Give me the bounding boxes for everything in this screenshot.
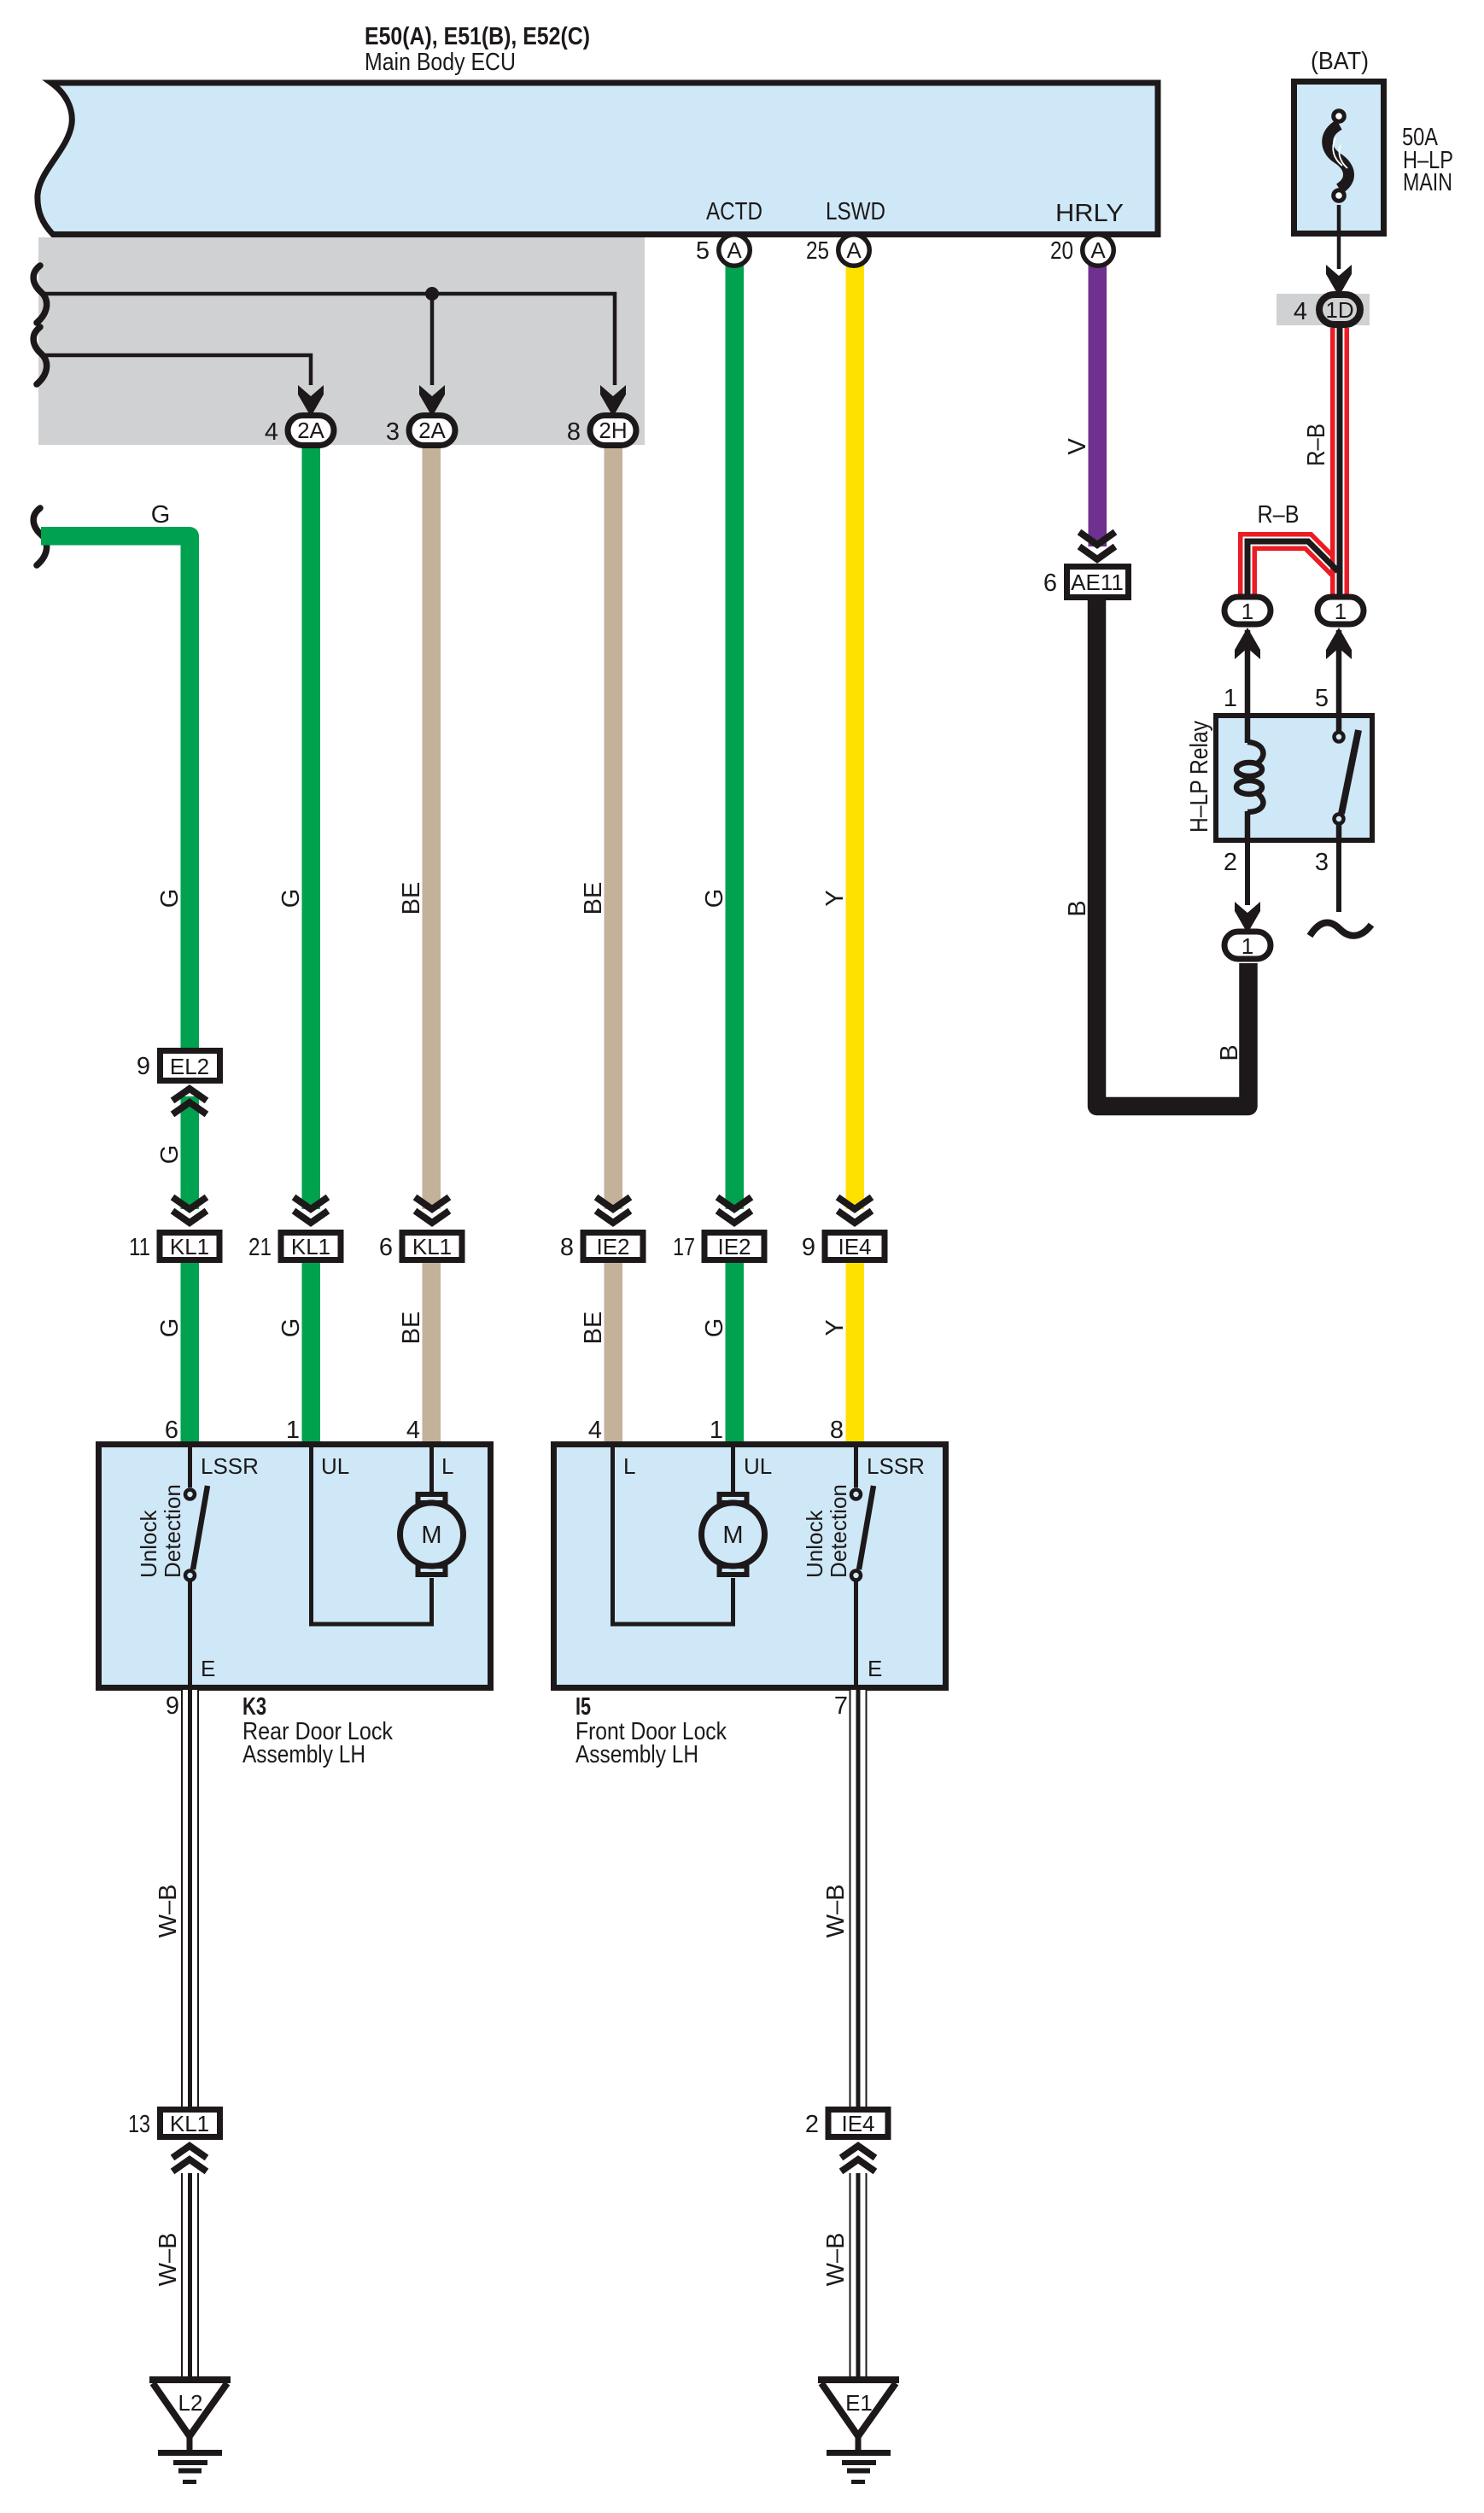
- svg-text:L: L: [623, 1453, 635, 1479]
- svg-text:9: 9: [166, 1692, 179, 1720]
- svg-text:M: M: [421, 1522, 441, 1549]
- svg-text:3: 3: [1315, 849, 1329, 876]
- svg-text:Main Body ECU: Main Body ECU: [365, 49, 516, 76]
- svg-text:G: G: [278, 1318, 305, 1338]
- svg-text:A: A: [727, 237, 742, 263]
- svg-text:5: 5: [696, 237, 710, 265]
- svg-text:R–B: R–B: [1303, 424, 1330, 466]
- svg-text:G: G: [156, 889, 184, 909]
- svg-text:M: M: [722, 1522, 743, 1549]
- svg-text:25: 25: [806, 237, 829, 265]
- svg-text:W–B: W–B: [822, 2233, 850, 2287]
- svg-text:AE11: AE11: [1071, 570, 1124, 595]
- svg-text:B: B: [1216, 1044, 1243, 1061]
- svg-text:9: 9: [802, 1234, 815, 1261]
- svg-text:H–LP Relay: H–LP Relay: [1186, 721, 1213, 833]
- svg-text:ACTD: ACTD: [706, 198, 762, 225]
- svg-text:2H: 2H: [599, 418, 627, 443]
- svg-text:2: 2: [805, 2111, 819, 2138]
- svg-text:W–B: W–B: [822, 1885, 850, 1938]
- svg-text:KL1: KL1: [291, 1234, 330, 1259]
- svg-text:V: V: [1064, 438, 1091, 455]
- svg-text:5: 5: [1315, 685, 1329, 712]
- svg-text:LSWD: LSWD: [826, 198, 885, 225]
- svg-text:E: E: [201, 1656, 215, 1681]
- svg-text:20: 20: [1050, 237, 1073, 265]
- svg-text:BE: BE: [398, 882, 425, 915]
- svg-text:G: G: [278, 889, 305, 909]
- svg-text:KL1: KL1: [412, 1234, 452, 1259]
- svg-text:6: 6: [379, 1234, 393, 1261]
- svg-text:E: E: [868, 1656, 882, 1681]
- svg-text:G: G: [156, 1318, 184, 1338]
- svg-text:IE2: IE2: [596, 1234, 629, 1259]
- svg-text:B: B: [1064, 900, 1091, 916]
- svg-text:1: 1: [1224, 685, 1237, 712]
- svg-text:G: G: [701, 1318, 728, 1338]
- svg-text:LSSR: LSSR: [867, 1453, 925, 1479]
- svg-text:9: 9: [137, 1053, 150, 1080]
- svg-text:KL1: KL1: [170, 1234, 209, 1259]
- svg-text:G: G: [701, 889, 728, 909]
- svg-text:Unlock: Unlock: [136, 1510, 161, 1578]
- svg-text:4: 4: [265, 418, 278, 446]
- svg-text:A: A: [1090, 237, 1106, 263]
- svg-text:IE2: IE2: [717, 1234, 751, 1259]
- svg-text:8: 8: [830, 1417, 844, 1444]
- svg-text:1: 1: [1335, 599, 1347, 624]
- svg-text:E1: E1: [845, 2390, 873, 2416]
- svg-text:I5: I5: [575, 1693, 591, 1721]
- svg-text:1: 1: [1242, 933, 1253, 959]
- svg-text:17: 17: [673, 1234, 695, 1261]
- svg-text:21: 21: [248, 1234, 272, 1261]
- svg-text:13: 13: [128, 2111, 150, 2138]
- svg-text:1: 1: [710, 1417, 723, 1444]
- svg-text:R–B: R–B: [1258, 501, 1300, 529]
- svg-text:G: G: [156, 1145, 184, 1165]
- svg-text:LSSR: LSSR: [201, 1453, 259, 1479]
- svg-text:1: 1: [286, 1417, 300, 1444]
- svg-text:Detection: Detection: [826, 1484, 851, 1578]
- svg-text:Unlock: Unlock: [802, 1510, 827, 1578]
- svg-text:Assembly LH: Assembly LH: [242, 1741, 365, 1768]
- svg-text:(BAT): (BAT): [1311, 48, 1369, 75]
- svg-text:Detection: Detection: [160, 1484, 185, 1578]
- svg-text:W–B: W–B: [155, 1885, 182, 1938]
- svg-text:8: 8: [560, 1234, 574, 1261]
- svg-text:IE4: IE4: [838, 1234, 871, 1259]
- svg-text:EL2: EL2: [170, 1054, 209, 1079]
- svg-text:IE4: IE4: [841, 2111, 874, 2136]
- svg-text:4: 4: [588, 1417, 602, 1444]
- svg-text:6: 6: [165, 1417, 178, 1444]
- svg-text:1D: 1D: [1325, 297, 1353, 323]
- svg-text:Y: Y: [821, 890, 849, 906]
- svg-text:6: 6: [1043, 570, 1057, 597]
- svg-text:7: 7: [834, 1692, 848, 1720]
- svg-text:2A: 2A: [297, 418, 324, 443]
- svg-text:1: 1: [1242, 599, 1253, 624]
- svg-text:8: 8: [567, 418, 581, 446]
- svg-text:L: L: [441, 1453, 453, 1479]
- svg-text:A: A: [846, 237, 862, 263]
- svg-text:HRLY: HRLY: [1055, 200, 1124, 227]
- svg-text:3: 3: [386, 418, 400, 446]
- svg-text:W–B: W–B: [155, 2233, 182, 2287]
- svg-text:UL: UL: [321, 1453, 349, 1479]
- svg-text:G: G: [151, 501, 171, 529]
- svg-text:4: 4: [1294, 298, 1307, 325]
- svg-text:2A: 2A: [418, 418, 446, 443]
- svg-text:UL: UL: [744, 1453, 772, 1479]
- svg-text:KL1: KL1: [170, 2111, 209, 2136]
- svg-text:Y: Y: [821, 1319, 849, 1335]
- svg-text:2: 2: [1224, 849, 1237, 876]
- svg-text:BE: BE: [398, 1312, 425, 1345]
- svg-text:4: 4: [406, 1417, 420, 1444]
- svg-text:11: 11: [129, 1234, 150, 1261]
- svg-text:Assembly LH: Assembly LH: [575, 1741, 698, 1768]
- svg-text:L2: L2: [178, 2390, 203, 2416]
- svg-text:E50(A), E51(B), E52(C): E50(A), E51(B), E52(C): [365, 23, 590, 50]
- svg-text:BE: BE: [580, 1312, 607, 1345]
- svg-text:BE: BE: [580, 882, 607, 915]
- svg-text:K3: K3: [242, 1693, 266, 1721]
- svg-text:MAIN: MAIN: [1403, 169, 1452, 196]
